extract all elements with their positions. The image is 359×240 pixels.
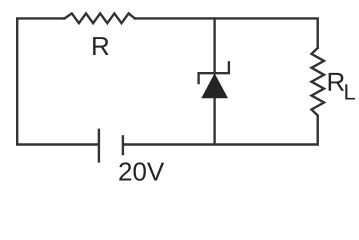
wire: battery positive plate, left along bottom, up left side, to resistor R: [17, 18, 99, 144]
resistor RL (zigzag, right branch): [312, 47, 325, 117]
wire: zener branch, anode to bottom node: [213, 98, 215, 146]
battery BT1: short (negative) plate: [122, 135, 124, 155]
battery BT1: long (positive) plate: [98, 129, 100, 163]
wire: resistor R to top-right corner, down to resistor RL: [134, 18, 318, 49]
zener diode D1: anode triangle: [201, 73, 228, 98]
label R (series resistor): [93, 37, 108, 55]
zener diode D1: cathode bar with bent ends: [199, 61, 229, 84]
wire: zener branch, top node to cathode bar: [213, 17, 215, 73]
resistor R (zigzag, top wire): [63, 13, 136, 23]
label 20V (battery voltage): [119, 162, 164, 180]
wire: resistor RL down to bottom-right corner, left to battery negative plate: [123, 115, 318, 145]
label RL (load resistor, R with subscript L): [329, 73, 344, 91]
